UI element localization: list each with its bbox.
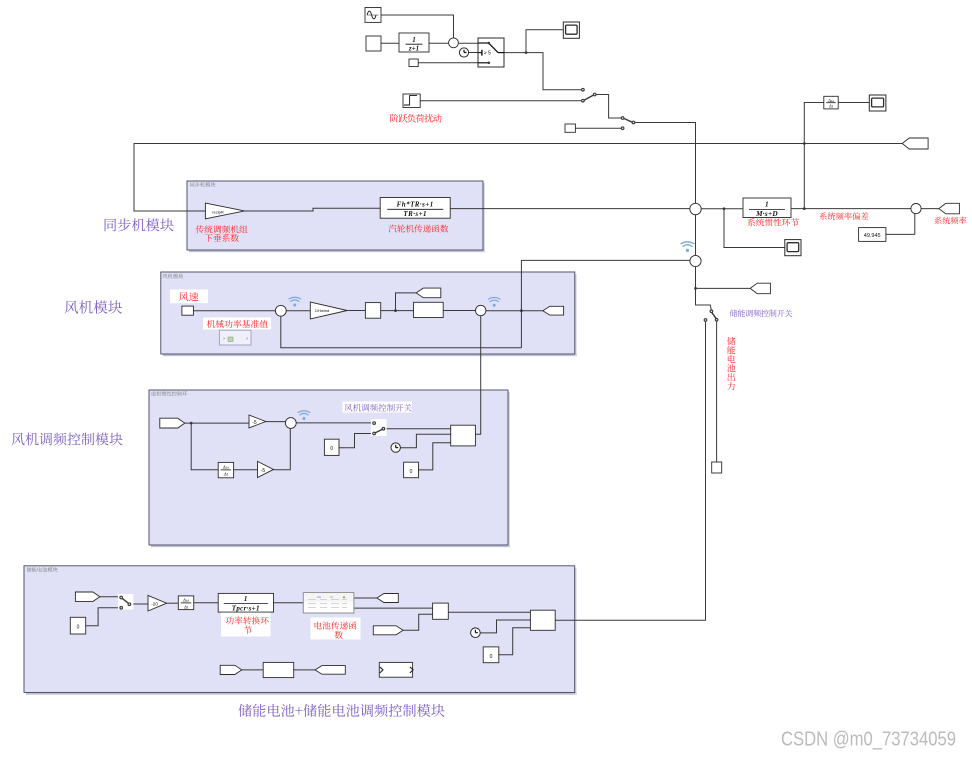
svg-text:-5: -5 xyxy=(261,468,266,474)
svg-text:TR·s+1: TR·s+1 xyxy=(403,210,427,218)
svg-text:1: 1 xyxy=(412,36,416,44)
svg-text:Tpcr·s+1: Tpcr·s+1 xyxy=(232,605,260,613)
svg-text:Δt: Δt xyxy=(828,104,834,109)
svg-text:›: › xyxy=(246,336,248,342)
svg-text:0: 0 xyxy=(77,625,80,631)
svg-text:Δω: Δω xyxy=(827,98,834,103)
svg-text:1/Hwind: 1/Hwind xyxy=(315,308,329,313)
svg-text:0: 0 xyxy=(410,469,413,475)
svg-text:Δt: Δt xyxy=(223,472,229,477)
svg-text:Δt: Δt xyxy=(183,604,189,609)
svg-text:Δω: Δω xyxy=(222,465,230,470)
svg-text:M·s+D: M·s+D xyxy=(755,210,778,218)
svg-text:CSDN @m0_73734059: CSDN @m0_73734059 xyxy=(781,729,956,751)
svg-text:> 5: > 5 xyxy=(484,51,491,57)
svg-text:0: 0 xyxy=(490,654,493,660)
svg-text:Fh*TR·s+1: Fh*TR·s+1 xyxy=(397,200,434,208)
svg-text:0: 0 xyxy=(330,446,333,452)
svg-text:Δω: Δω xyxy=(182,598,190,603)
svg-text:49.945: 49.945 xyxy=(864,233,881,239)
svg-text:1: 1 xyxy=(765,201,769,209)
svg-text:›: › xyxy=(223,336,225,342)
svg-text:1: 1 xyxy=(244,595,248,603)
svg-text:-20: -20 xyxy=(151,601,158,606)
svg-text:z+1: z+1 xyxy=(408,44,419,52)
svg-text:-5: -5 xyxy=(252,420,257,426)
svg-text:recipR: recipR xyxy=(212,209,224,214)
